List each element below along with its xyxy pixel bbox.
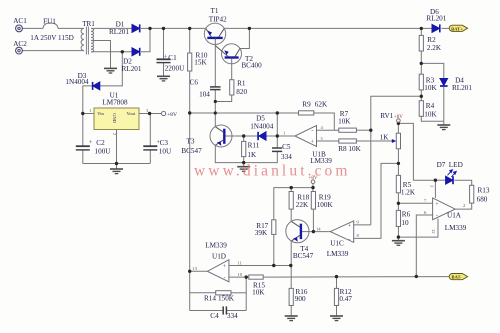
resistor R19 [311,192,315,210]
svg-text:11: 11 [238,260,243,265]
svg-text:1K: 1K [380,133,390,141]
svg-text:62K: 62K [315,101,328,109]
wire transformer center tap [91,41,111,69]
diode D6 [432,24,440,32]
wire T2 collector to rail [240,28,250,48]
svg-text:10K: 10K [424,84,437,92]
power +8V symbol above RV1 [397,119,401,123]
wire R19 top stem [312,188,314,192]
wire R10 top lead [189,28,191,53]
op-amp U1C LM339 (points left) [330,221,353,243]
svg-text:GND: GND [112,113,117,124]
svg-text:9: 9 [357,220,360,225]
svg-text:T3: T3 [187,137,195,145]
wire R18 top stem [290,188,292,192]
wire R1 bottom to C6 bottom [215,95,231,102]
svg-text:Vin: Vin [97,111,104,116]
svg-text:1: 1 [283,130,286,135]
wire feedback vertical R14/C4 right [245,277,247,310]
resistor R12 [334,288,338,305]
wire C4 leads [190,310,223,312]
svg-text:900: 900 [295,295,306,303]
wire gnd stem R11 node [243,163,245,167]
wire AC2 to transformer primary [22,50,84,52]
svg-text:U1D: U1D [212,253,226,261]
wire T3 base to D5 [224,135,257,137]
node divider tap [420,95,423,98]
diode D5 1N4004 (points left) [258,132,266,140]
svg-text:Vout: Vout [127,111,136,116]
wire U1 Vout to +8V terminal [139,113,162,115]
svg-text:10K: 10K [424,110,437,118]
wire C6 bottom to +8V rail crossing [214,89,216,113]
node D1/D2 rail join [148,27,151,30]
wire divider tap to vertical A [371,96,422,225]
wire LED cathode to R13 [454,180,471,185]
tag BAT- [449,274,467,280]
node R7 tap [369,129,372,132]
diode D4 (points down) [440,79,448,87]
svg-text:U1C: U1C [330,239,344,247]
svg-text:15K: 15K [194,59,207,67]
svg-text:1.2K: 1.2K [401,189,416,197]
svg-text:1N4004: 1N4004 [65,78,89,86]
node D2 branch [121,50,124,53]
ground (U1 regulator) [110,169,123,174]
node feedback on minus wire [245,275,248,278]
LED D7 [446,170,457,184]
svg-text:10U: 10U [159,147,172,155]
ground (R16) [285,316,298,321]
svg-text:C5: C5 [282,143,291,151]
transistor T3 BC547 [210,125,232,147]
wire U1 Vin [83,113,94,115]
svg-text:AC1: AC1 [13,17,27,25]
svg-text:22K: 22K [296,201,309,209]
svg-text:39K: 39K [255,229,268,237]
svg-text:D4: D4 [455,76,464,84]
svg-text:FU1: FU1 [43,17,56,25]
svg-text:334: 334 [281,153,292,161]
wire U1A plus input [398,202,432,204]
svg-text:+8V: +8V [167,112,177,118]
svg-text:1A 250V 115D: 1A 250V 115D [30,34,74,42]
wire R18 bottom to T4 collector [290,209,292,221]
svg-text:104: 104 [199,90,210,98]
wire R12 bottom stem [336,306,338,316]
wire U1D minus input to R15 [229,276,249,278]
svg-text:LED: LED [449,161,463,169]
svg-text:RL201: RL201 [109,28,129,36]
wire T3 collector stem [214,113,216,127]
wire R9 right to U1B minus corner [314,113,335,130]
wire node to U1B output apex [277,135,295,137]
wire C1 stem top [163,28,165,58]
svg-text:10K: 10K [252,288,265,296]
wire R3 bottom to R4 top [420,90,422,101]
svg-text:RL201: RL201 [426,14,446,22]
svg-text:U1A: U1A [447,211,462,219]
wire LED anode segment [435,179,445,181]
wire AC1 to fuse [22,27,43,29]
svg-text:RL201: RL201 [452,84,472,92]
wire D2 cathode up to rail [141,28,150,51]
svg-text:+: + [348,223,352,229]
wire C2 stem [82,114,84,147]
svg-text:RL201: RL201 [122,65,142,73]
node R5/R6 U1A plus [397,202,400,205]
svg-text:LM339: LM339 [327,250,349,258]
svg-text:12: 12 [431,229,436,234]
ground (D4/R4) [437,125,450,130]
svg-text:T1: T1 [211,7,219,15]
svg-text:R11: R11 [248,142,260,150]
svg-text:R1: R1 [237,80,246,88]
svg-text:R13: R13 [478,187,490,195]
svg-text:10: 10 [401,219,409,227]
node LED anode pin3 [434,179,437,182]
op-amp U1D LM339 (points left) [207,260,229,282]
svg-text:+8V: +8V [394,115,403,120]
wire R7 right to divider tap vertical [356,129,370,131]
node T2 collector rail [248,27,251,30]
wire D2 anode branch down to D3 anode [100,52,123,86]
wire left bus to R14/C4 left joins [189,271,191,310]
svg-text:R4: R4 [426,102,435,110]
svg-text:3: 3 [430,185,435,188]
svg-text:R8: R8 [338,145,347,153]
wire R11 bottom stem [243,157,245,163]
wire C2/C3 bottom loop [83,163,151,165]
svg-text:BC400: BC400 [241,62,262,70]
resistor R14 [216,291,231,295]
wire U1A gnd pin12 [398,219,438,238]
svg-text:+: + [435,202,439,208]
wire R6 bottom to gnd [397,227,399,241]
svg-text:LM7808: LM7808 [102,99,128,107]
node R11 top [242,134,245,137]
wire U1C plus input [354,224,371,226]
svg-text:C2: C2 [96,139,105,147]
svg-text:BC547: BC547 [181,147,202,155]
node RV1 bottom / U1C minus [397,162,400,165]
svg-text:-: - [436,213,438,219]
resistor R16 [289,288,293,305]
svg-text:680: 680 [477,196,488,204]
resistor R15 [249,275,263,279]
resistor R4 [419,101,423,117]
wire U1A vcc pin3 stem [434,180,436,198]
resistor R17 [272,220,276,235]
capacitor C1 electrolytic [157,59,171,62]
svg-text:-: - [348,237,350,243]
svg-text:5: 5 [321,136,324,141]
wire U1B minus input [317,129,339,131]
resistor R8 [339,139,357,143]
svg-text:R5: R5 [403,181,412,189]
node R6 gnd / pin12 [397,235,400,238]
svg-text:R9: R9 [302,101,311,109]
svg-text:1K: 1K [247,151,257,159]
ground (transformer center tap) [104,68,117,73]
svg-text:0.47: 0.47 [339,295,352,303]
svg-text:R6: R6 [402,210,411,218]
wire left bus x=190 down to U1D output [189,113,191,271]
wire D4 bottom stem [443,87,445,122]
svg-text:BC547: BC547 [293,252,314,260]
svg-text:+: + [89,140,93,146]
ground (R12) [330,316,343,321]
resistor R11 [242,141,246,156]
svg-text:1: 1 [90,108,93,113]
wire R11 top stem [243,136,245,141]
svg-text:LM339: LM339 [445,224,467,232]
capacitor C5 [272,148,282,151]
svg-text:6: 6 [424,210,427,215]
resistor R13 [470,185,474,203]
resistor R18 [289,192,293,210]
wire U1D output to bus [190,270,208,272]
svg-text:AC2: AC2 [13,40,27,48]
node T4 emitter / U1D plus [289,264,292,267]
potentiometer RV1 [392,133,401,149]
power +8V symbol above R19 [311,180,315,184]
svg-text:C3: C3 [160,139,169,147]
wire +8V branch right and down to LED row [398,123,435,180]
svg-text:D5: D5 [256,115,265,123]
resistor R7 [339,128,357,132]
wire T4 base short [302,231,309,233]
svg-text:10: 10 [238,272,243,277]
wire ground stem under U1 [116,164,118,169]
svg-text:8: 8 [357,233,360,238]
resistor R5 [396,175,400,192]
node R11 bottom gnd [242,161,245,164]
node U1A minus sense [415,275,418,278]
wire R5 bottom to R6 top [397,193,399,211]
wire +8V rail drop to D5 node [276,113,278,136]
wire D5 anode to node [266,135,277,137]
svg-text:BAT+: BAT+ [451,26,463,31]
svg-text:2.2K: 2.2K [427,44,442,52]
wire RV1 bottom chain [397,149,399,176]
node D5 +8V drop [276,111,279,114]
svg-text:10K: 10K [338,118,351,126]
svg-text:R7: R7 [340,110,349,118]
wire R13 bottom to U1A output [455,203,472,209]
svg-text:R2: R2 [427,36,436,44]
wire +8V rail [190,112,299,114]
wire T4 emitter down to R16 [290,241,292,288]
svg-text:100K: 100K [317,201,334,209]
svg-text:R18: R18 [297,193,309,201]
wire D1 cathode to top rail left segment [141,27,206,29]
ground (R6) [392,241,405,246]
wire R16 bottom stem [290,306,292,316]
resistor R9 [299,111,314,115]
transistor T1 TIP42 [204,23,225,44]
wire C3 stem [149,114,151,147]
transformer TR1 [81,27,94,55]
wire T1 collector rail right segment [224,27,432,29]
diode D3 (points left) [93,82,100,90]
node D5 anode [276,134,279,137]
wire T3 emitter down and right to gnd node [215,145,243,162]
svg-text:C4: C4 [210,312,219,320]
svg-text:-: - [224,276,226,282]
svg-text:D2: D2 [123,57,132,65]
wire gnd stem under D4 [443,121,445,125]
wire +8V terminal stem [312,184,314,188]
terminal AC1 [16,25,23,32]
wire C5 stem bottom [244,152,278,163]
wire R2 stem from rail [420,28,422,35]
svg-text:BAT-: BAT- [451,275,462,280]
node +8V R18/R19 [290,186,293,189]
wire R14 leads [190,292,216,294]
node U1 Vin [81,112,84,115]
resistor R10 [188,53,192,71]
node RV1 +8V [397,122,400,125]
fuse FU1 body [43,23,58,28]
wire U1A minus input from BAT- sense [416,215,432,276]
svg-text:TR1: TR1 [82,20,95,28]
node T4 base / R19 / U1C out [312,230,315,233]
node U1D output bus [188,270,191,273]
svg-text:TIP42: TIP42 [209,15,227,23]
node R2/D4 branch [420,62,423,65]
svg-text:100U: 100U [95,147,112,155]
node U1 Vout [148,112,151,115]
svg-text:150K: 150K [218,294,235,302]
wire C1 stem bottom to ground [163,63,165,76]
resistor R2 [419,35,423,51]
wire R15 right / BAT- sense line [263,276,449,279]
diode D1 [132,24,140,32]
wire R10 bottom lead / left bus upper [189,71,191,113]
capacitor C4 [223,306,226,314]
svg-text:2200U: 2200U [165,64,185,72]
wire C5 stem top [276,136,278,148]
wire T1 base stem [214,39,216,87]
transistor T2 BC400 [216,44,242,64]
op-amp U1B LM339 (points left) [295,126,317,147]
svg-text:13: 13 [192,266,197,271]
svg-text:D7: D7 [437,161,446,169]
svg-text:RV1: RV1 [380,112,393,120]
svg-text:334: 334 [227,312,238,320]
node R17 bottom [272,264,275,267]
node bus +8V rail [188,111,191,114]
regulator U1 pin texts [97,111,136,123]
svg-text:1N4004: 1N4004 [250,123,274,131]
wire branch to D4 top [421,63,444,78]
wire R17 bottom to U1D plus [273,234,275,265]
svg-text:14: 14 [316,227,321,232]
wire secondary top to D1 [91,27,132,29]
resistor R6 [396,210,400,226]
resistor R3 [419,74,423,90]
wire secondary bottom to D2 [91,51,132,53]
wire R4 bottom to D4 gnd [421,116,444,121]
node U1 gnd loop [115,162,118,165]
wire R19 bottom to T4 base node [312,209,314,232]
wire R12 top stem [336,277,338,289]
node C1 rail [162,27,165,30]
ground (C1) [157,76,170,81]
svg-text:C6: C6 [190,78,199,86]
node R2 rail [420,27,423,30]
svg-text:R14: R14 [204,294,216,302]
wire U1B plus input to R8 [317,140,339,142]
svg-text:2: 2 [463,203,466,208]
terminal AC2 [16,47,23,54]
regulator U1 LM7808 [94,108,139,130]
svg-text:4: 4 [321,125,324,130]
capacitor C2 electrolytic [76,146,90,150]
wire U1C minus branch [354,163,399,238]
node R12 top [335,275,338,278]
wire T2 base stem to R1 [231,58,233,80]
svg-text:10K: 10K [348,145,361,153]
op-amp U1A LM339 (points right) [433,198,456,220]
wire R8 right to RV1 wiper [356,140,394,142]
wire U1 pin2 stem [116,130,118,164]
wire U1C output to T4 base [309,231,330,233]
svg-text:C1: C1 [168,54,177,62]
wire fuse to transformer primary [58,27,84,29]
ground (R11/C5 node) [237,167,250,172]
node T1 base rail crossing [214,111,217,114]
node C6/R1 [214,100,217,103]
resistor R1 [230,80,234,95]
svg-text:-: - [311,129,313,135]
wire U1D plus input row [229,265,291,267]
diode D2 [132,48,140,56]
tag BAT+ [449,25,467,31]
svg-text:R19: R19 [319,193,331,201]
capacitor C3 electrolytic [143,146,157,150]
svg-text:www.dianlut.com: www.dianlut.com [194,163,351,180]
wire D3 cathode to U1 Vin node [83,86,92,114]
svg-text:LM339: LM339 [205,242,227,250]
svg-text:820: 820 [236,88,247,96]
wire RV1 top to +8V [397,122,399,133]
capacitor C6 [210,87,221,90]
svg-text:+: + [157,140,161,146]
node R10 rail [188,27,191,30]
svg-text:7: 7 [424,198,427,203]
wire D6 cathode to BAT+ tag [442,27,450,29]
power +8V red labels [309,115,404,181]
power +8V terminal (U1 out) [162,111,166,115]
transistor T4 BC547 [286,220,309,243]
wire +8V node above R18 R19 [274,188,313,220]
wire R2 bottom to R3 with D4 branch [420,51,422,74]
svg-text:+: + [311,140,315,146]
